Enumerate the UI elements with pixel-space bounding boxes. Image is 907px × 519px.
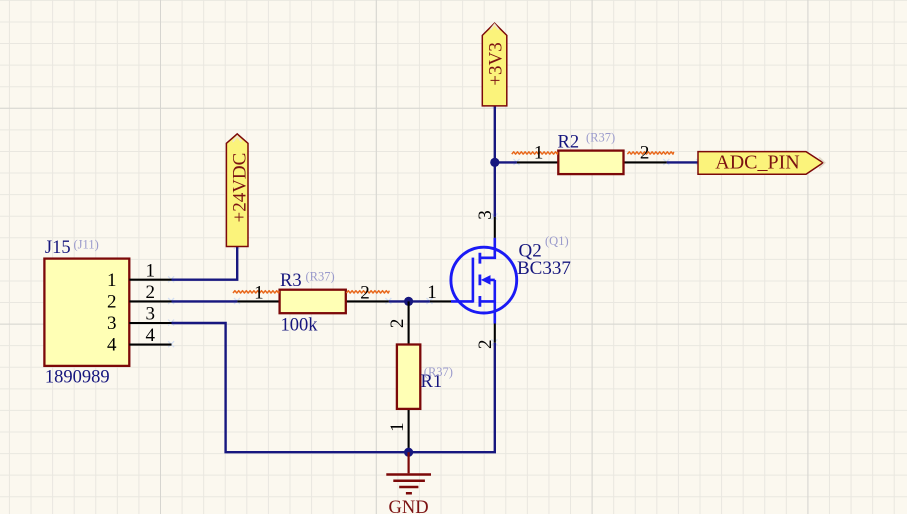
R2 pin 2 label [627,143,673,164]
svg-text:2: 2 [360,283,370,304]
svg-text:3: 3 [475,210,496,220]
pin connection markers [168,103,702,348]
wire +3V3 to node B to Q2 drain [494,106,496,217]
svg-text:BC337: BC337 [517,258,571,279]
ground symbol GND [386,452,431,518]
resistor R1 [397,301,420,452]
svg-text:(R37): (R37) [424,365,453,379]
wire R2 pin2 to ADC_PIN port [667,161,699,163]
R3 pin 2 label [346,283,389,304]
svg-text:1: 1 [427,282,437,303]
junction GND rail [404,448,413,457]
svg-text:1: 1 [146,260,156,281]
svg-text:2: 2 [146,282,156,303]
svg-text:(J11): (J11) [74,238,99,252]
J15 pin 1 [107,260,172,291]
svg-text:GND: GND [389,498,429,514]
svg-text:2: 2 [640,143,650,164]
port ADC_PIN [698,152,825,175]
svg-text:2: 2 [387,319,408,329]
R2 pin 1 label [512,143,558,164]
J15 pin 4 [107,325,172,356]
wire J15 pin1 to +24VDC [172,247,238,280]
transistor Q2 symbol [451,238,517,324]
connector J15 body [44,259,129,366]
svg-text:3: 3 [146,304,156,325]
junction node B (drain/R2) [490,158,499,167]
power port +24VDC [226,134,250,247]
svg-text:1: 1 [254,283,264,304]
junction node A (gate) [404,297,413,306]
svg-text:ADC_PIN: ADC_PIN [715,152,799,174]
svg-text:(R37): (R37) [586,131,615,145]
svg-text:3: 3 [107,313,117,334]
svg-text:100k: 100k [281,315,319,335]
svg-text:4: 4 [146,325,156,346]
svg-text:(Q1): (Q1) [545,234,569,248]
svg-text:+3V3: +3V3 [485,42,506,85]
svg-text:4: 4 [107,335,117,356]
svg-text:J15: J15 [45,238,71,258]
R3 pin 1 label [233,283,279,304]
svg-text:1: 1 [387,422,408,432]
svg-text:2: 2 [475,340,496,350]
transistor Q2 pins [430,217,495,343]
svg-text:1890989: 1890989 [45,367,110,387]
wire J15 pin3 to GND rail to Q2 source [172,323,495,452]
svg-text:2: 2 [107,292,117,313]
svg-text:1: 1 [534,143,544,164]
svg-text:R3: R3 [280,271,302,291]
svg-text:(R37): (R37) [306,269,335,283]
J15 pin 2 [107,282,172,313]
svg-text:1: 1 [107,270,117,291]
wire J15 pin2 to R3 pin1 [172,300,238,302]
resistor R2 [517,151,667,175]
power port +3V3 [482,23,507,106]
svg-text:R2: R2 [558,133,580,153]
wire R3 pin2 to Q2 gate (node A) [389,300,430,302]
J15 pin 3 [107,304,172,335]
svg-text:+24VDC: +24VDC [229,153,250,223]
resistor R3 [237,290,388,314]
wire node B to R2 pin1 [495,161,517,163]
